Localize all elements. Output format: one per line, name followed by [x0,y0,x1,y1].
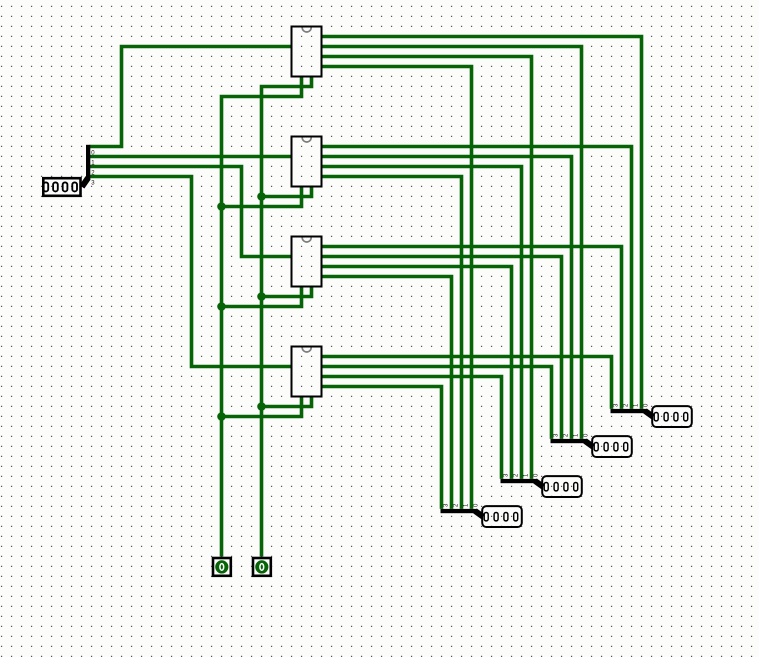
chip U4 [292,347,322,397]
wire: chip U1 output 1 to splitter column x=581 [322,47,582,439]
4-bit input component IN1 value 0000 [43,178,80,196]
wire: chip U3 output 0 to splitter column x=621 [322,247,622,409]
wire: splitter branch 3 to chip U4 input [90,177,292,367]
input pin P1 value 0 [213,558,231,576]
wire: chip U2 output 1 to splitter column x=571 [322,157,572,439]
junction at (221,306) [217,302,226,311]
chip U3 [292,237,322,287]
splitter S0 (4-bit fan-out from input bus) [82,145,95,187]
wire: chip U2 pin B to bus x=261 [262,187,312,197]
junction at (221,206) [217,202,226,211]
wire: chip U2 output 0 to splitter column x=631 [322,147,632,409]
wire: chip U1 pin B to input pin P2 vertical bus [262,77,312,557]
junction at (261,296) [257,292,266,301]
junction at (261,406) [257,402,266,411]
input pin P2 value 0 [253,558,271,576]
wire: chip U4 pin A to bus x=221 [222,397,302,417]
wire: chip U4 pin B to bus x=261 [262,397,312,407]
wire: chip U3 pin A to bus x=221 [222,287,302,307]
wire: chip U1 output 3 to splitter column x=471 [322,67,472,509]
junction at (221,416) [217,412,226,421]
hex display H3 [592,436,632,457]
wire: chip U3 pin B to bus x=261 [262,287,312,297]
wire: splitter branch 0 to chip U1 input [90,47,292,147]
junction at (261,196) [257,192,266,201]
wire: chip U3 output 3 to splitter column x=451 [322,277,452,509]
wire: chip U3 output 2 to splitter column x=511 [322,267,512,479]
wire: chip U4 output 2 to splitter column x=501 [322,377,502,479]
wire: chip U2 output 2 to splitter column x=521 [322,167,522,479]
wire: chip U1 output 2 to splitter column x=531 [322,57,532,479]
wire: chip U1 output 0 to splitter column x=641 [322,37,642,409]
splitter S1 (4-bit fan-in) [441,503,484,517]
splitter S3 (4-bit fan-in) [551,433,594,447]
wire: chip U4 output 0 to splitter column x=611 [322,357,612,409]
wire: chip U2 output 3 to splitter column x=461 [322,177,462,509]
hex display H2 [542,476,582,497]
wire: chip U2 pin A to bus x=221 [222,187,302,207]
wire: chip U3 output 1 to splitter column x=561 [322,257,562,439]
wire: chip U1 pin A to input pin P1 vertical bus [222,77,302,557]
wire: chip U4 output 3 to splitter column x=441 [322,387,442,509]
wire: splitter branch 1 to chip U2 input [90,155,292,159]
hex display H1 [482,506,522,527]
splitter S2 (4-bit fan-in) [501,473,544,487]
hex display H4 [652,406,692,427]
chip U2 [292,137,322,187]
splitter S4 (4-bit fan-in) [611,403,654,417]
chip U1 [292,27,322,77]
wire: splitter branch 2 to chip U3 input [90,167,292,257]
wire: chip U4 output 1 to splitter column x=551 [322,367,552,439]
